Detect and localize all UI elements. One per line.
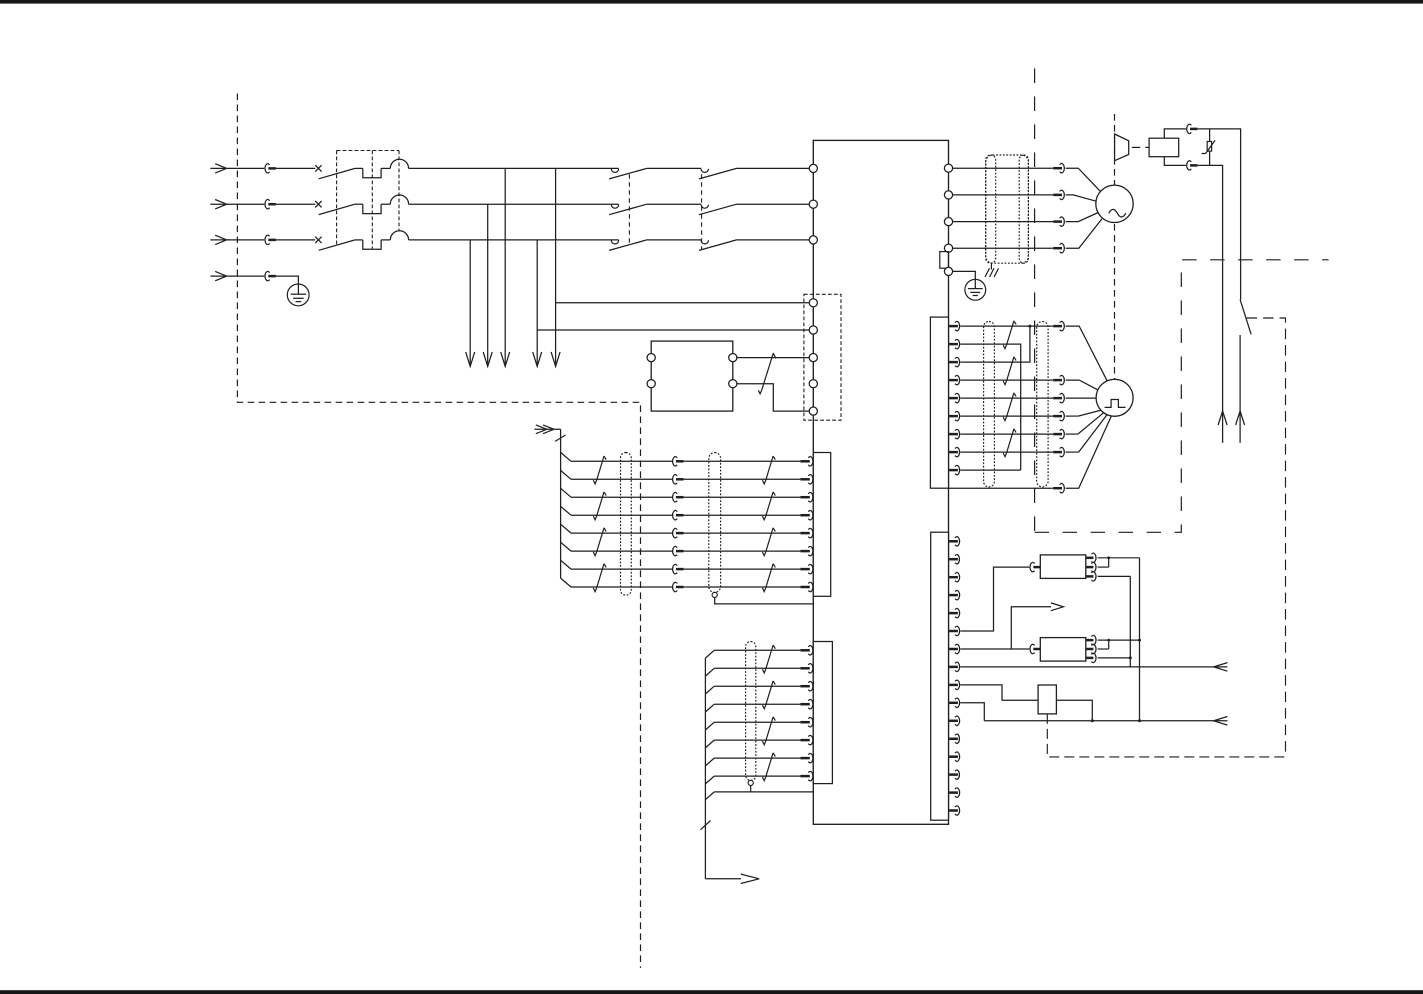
board terminal circle L2	[809, 200, 817, 208]
printer enclosure boundary (left, dashed)	[237, 94, 640, 968]
harness H1 wire 4 (right)	[684, 510, 813, 520]
CN1 pin2 jumper wire	[960, 344, 1020, 470]
harness H1 inline connector 2	[673, 474, 684, 484]
motor M1 ground wire	[952, 271, 975, 279]
power tap wire T2 with down arrow	[483, 204, 492, 366]
connector CN2 pin 5	[949, 608, 960, 618]
twisted pair mark M2-1	[1003, 321, 1016, 349]
relay RY1 output pin 1	[1086, 553, 1096, 563]
mains input arrow PE	[210, 271, 226, 280]
circuit breaker CB1 pole 2 (blade, thermal element)	[319, 195, 409, 215]
connector CN1 pin 1	[949, 321, 960, 331]
harness H1 cable count slash	[555, 435, 565, 441]
motor M2 lead 2	[1066, 380, 1098, 390]
harness H1 inline connector 7	[673, 564, 684, 574]
connector CN2 pin 1	[949, 536, 960, 546]
twisted pair mark H1R-2	[762, 492, 775, 520]
buzzer driver box	[1149, 138, 1179, 157]
relay RY2 input connector	[1030, 644, 1041, 654]
motor M1 cable shield (outer)	[986, 155, 1029, 263]
harness H1 entry arrow	[534, 425, 560, 434]
relay RY2 output pin 1	[1086, 635, 1096, 645]
contactor K2 contact pole 3	[699, 240, 810, 251]
connector CN1 pin 7	[949, 429, 960, 439]
board connector CN1 housing	[930, 317, 948, 488]
top frame bar	[0, 0, 1423, 4]
relay RY2 wire bottom	[1098, 657, 1131, 659]
connector CN1 pin 6	[949, 411, 960, 421]
circuit breaker CB1 pole 3 (blade, thermal element)	[319, 231, 409, 251]
harness H2 bus wire	[704, 658, 706, 879]
relay RY1 output pin 2	[1086, 562, 1096, 572]
circuit breaker CB1 outline (dashed)	[337, 151, 399, 249]
contactor K1 contact pole 3	[609, 240, 701, 251]
relay RY1 wire bottom	[1098, 575, 1131, 577]
harness H2 branch 6	[705, 740, 714, 748]
connector CN1 pin 5	[949, 393, 960, 403]
wire CN2-7 to relay RY2	[960, 648, 1029, 650]
relay RY1 output pin 3	[1086, 572, 1096, 582]
relay RY2 output pin 3	[1086, 653, 1096, 663]
motor M1 cable shield (inner left)	[986, 155, 996, 263]
harness H1 branch 4	[561, 506, 571, 515]
harness H1 inline connector 1	[673, 456, 684, 466]
motor unit boundary (dashed vertical at speaker/motors)	[1114, 114, 1116, 379]
harness H1 inline connector 8	[673, 582, 684, 592]
harness H1 inline connector 6	[673, 546, 684, 556]
harness H1 wire 4 (left)	[571, 514, 672, 516]
motor M2 lead 1	[1066, 326, 1108, 381]
board connector CN3 housing	[813, 453, 830, 597]
harness H1 wire 5 (left)	[571, 532, 672, 534]
harness H1 wire 8 (right)	[684, 582, 813, 592]
harness H2 branch 2	[705, 668, 714, 676]
connector CN2 pin 6	[949, 626, 960, 636]
fuse F2 (X mark)	[276, 201, 322, 207]
board connector CN4 housing	[813, 642, 832, 784]
motor M1 lead 3	[1066, 213, 1099, 222]
harness H1 inline connector 4	[673, 510, 684, 520]
motor M1 phase wire 4	[952, 243, 1064, 253]
CN1 pin5 wire to motor	[960, 393, 1064, 403]
wire tap T4 to board connector (lower)	[537, 329, 810, 331]
motor M2 (stepping motor with encoder)	[1096, 379, 1133, 416]
harness H1 wire 7 (right)	[684, 564, 813, 574]
interlock switch S1 blade	[1240, 300, 1251, 335]
connector CN1 pin 4	[949, 375, 960, 385]
connector CN2 pin 14	[949, 770, 959, 780]
relay RY1 input connector	[1030, 562, 1041, 572]
harness H2 wire 7	[714, 753, 813, 763]
twisted pair mark H2-3	[762, 717, 775, 745]
fuse F1 (X mark)	[276, 165, 322, 171]
harness H2 branch 4	[705, 704, 714, 712]
mains inlet connector PE	[227, 271, 276, 281]
buzzer link (dashed)	[1132, 146, 1149, 148]
signal bus vertical B	[1129, 576, 1132, 667]
CN1 pin7 wire to motor	[960, 429, 1064, 439]
power tap wire T3 with down arrow	[501, 168, 510, 366]
board output circle U1	[944, 164, 952, 172]
motor M2 cable shield capsule B	[1037, 322, 1048, 487]
relay RY1 (solenoid)	[1040, 555, 1086, 579]
door switch SW2 output wire	[1056, 700, 1093, 722]
twisted pair mark M2-2	[1003, 357, 1016, 385]
external option boundary (long-dash rectangle)	[1035, 260, 1329, 533]
wire L2 breaker to contactor	[409, 203, 619, 205]
board output circle U2	[944, 191, 952, 199]
board output circle U3	[944, 218, 952, 226]
connector CN2 pin 10	[949, 698, 960, 708]
twisted pair mark H2-2	[762, 681, 775, 709]
thermistor TH1	[1202, 129, 1216, 166]
door switch linkage (dashed upper)	[1247, 318, 1286, 757]
connector CN2 pin 3	[949, 572, 960, 582]
contactor K1 contact pole 2	[609, 204, 701, 215]
board terminal circle A2	[809, 326, 817, 334]
harness H2 branch 1	[705, 650, 714, 658]
CN1 pin8 wire to motor	[960, 447, 1064, 457]
connector CN2 pin 11	[949, 716, 960, 726]
connector CN2 pin 12	[949, 734, 959, 744]
motor M2 lead 6	[1066, 415, 1107, 452]
harness H1 wire 3 (right)	[684, 492, 813, 502]
interlock switch S1 lower wire	[1239, 335, 1241, 443]
harness H2 wire 4	[714, 699, 813, 709]
protective earth symbol E2	[965, 279, 986, 300]
harness H1 wire 7 (left)	[571, 568, 672, 570]
board terminal circle L3	[809, 236, 817, 244]
mains input arrow L1	[210, 164, 226, 173]
buzzer wire bottom	[1164, 157, 1222, 443]
harness H1 wire 8 (left)	[571, 586, 672, 588]
mains input arrow L3	[210, 235, 226, 244]
harness H2 wire 3	[714, 681, 813, 691]
relay RY1 wire mid	[1098, 556, 1111, 567]
harness H1 branch 1	[561, 452, 571, 461]
protective earth symbol E1	[287, 284, 309, 306]
buzzer wire top	[1164, 124, 1240, 300]
contactor K2 contact pole 1	[699, 168, 810, 179]
wire CN2-9 to door switch	[960, 685, 1038, 700]
relay RY1 wire top	[1098, 557, 1140, 559]
harness H1 wire 5 (right)	[684, 528, 813, 538]
shield drain and chassis ground FG1	[985, 263, 999, 277]
harness H1 inline connector 5	[673, 528, 684, 538]
harness H1 shield capsule (left)	[621, 453, 632, 596]
connector CN2 pin 16	[949, 806, 960, 816]
harness H2 branch 3	[705, 686, 714, 694]
buzzer BZ1 (speaker cone)	[1115, 134, 1129, 161]
motor M1 phase wire 2	[952, 190, 1064, 200]
twisted pair mark M2-3	[1003, 393, 1016, 421]
motor M1 lead 4	[1066, 219, 1103, 249]
wire external input (lower)	[984, 717, 1227, 726]
connector CN1 pin 8	[949, 447, 960, 457]
harness H1 branch 2	[561, 470, 571, 479]
mains inlet connector L1	[227, 164, 276, 174]
motor M2 cable shield capsule A	[984, 322, 995, 487]
harness H1 inline connector 3	[673, 492, 684, 502]
harness H2 wire 6	[714, 735, 813, 745]
circuit breaker CB1 pole 1 (blade, thermal element)	[319, 159, 409, 179]
connector CN2 pin 8	[949, 662, 960, 672]
wire CN2-10 jumper down	[960, 703, 984, 721]
connector CN5 outline (dashed)	[804, 294, 841, 420]
twisted pair mark H2-1	[762, 645, 775, 673]
harness H2 exit arrow	[705, 874, 759, 883]
relay RY2 wire top	[1098, 639, 1140, 641]
board output circle GND	[944, 267, 952, 275]
motor M2 lead 7	[1066, 416, 1112, 488]
door switch SW2 box	[1038, 685, 1056, 714]
contactor K1 contact pole 1	[609, 168, 701, 179]
twisted pair mark H1L-3	[593, 528, 606, 556]
harness H1 branch 5	[561, 524, 571, 533]
harness H2 wire 8	[714, 771, 813, 781]
harness H2 branch 5	[705, 722, 714, 730]
motor M1 phase wire 1	[952, 163, 1064, 173]
harness H1 bus wire	[560, 429, 562, 578]
external line arrow up (right)	[1236, 411, 1245, 425]
CN1 pin1 wire to motor	[960, 321, 1064, 331]
board output circle U4	[944, 244, 952, 252]
board terminal circle A3	[809, 354, 817, 362]
power tap wire T1 with down arrow	[466, 240, 475, 367]
wire L1 breaker to contactor	[409, 167, 619, 169]
contactor K1 linkage (dashed)	[628, 174, 630, 244]
twisted pair mark H1R-1	[762, 456, 775, 484]
harness H2 shield capsule	[746, 642, 756, 792]
connector CN2 pin 13	[949, 752, 960, 762]
relay RY2 output pin 2	[1086, 644, 1096, 654]
harness H1 wire 3 (left)	[571, 496, 672, 498]
twisted pair mark H1R-4	[762, 564, 775, 592]
connector CN1 pin 2	[949, 339, 960, 349]
reference arrow branch	[1011, 603, 1063, 649]
wire tap T5 to board connector (upper)	[556, 302, 810, 304]
twisted pair mark H1L-2	[593, 492, 606, 520]
board terminal circle L1	[809, 164, 817, 172]
terminal jumper bar	[940, 252, 949, 269]
connector CN1 pin 9	[949, 465, 960, 475]
harness H2 branch 7	[705, 758, 714, 766]
harness H1 wire 1 (right)	[684, 456, 813, 466]
harness H1 branch 8	[561, 578, 571, 587]
harness H1 branch 3	[561, 488, 571, 497]
harness H1 wire 6 (right)	[684, 546, 813, 556]
transformer T1 terminal S1	[729, 354, 737, 362]
wire T1 secondary 2	[736, 384, 810, 411]
motor M1 (AC motor)	[1096, 185, 1133, 222]
bottom frame bar	[0, 990, 1423, 994]
motor M1 lead 1	[1066, 168, 1101, 192]
twisted pair mark M2-4	[1003, 429, 1016, 457]
power tap wire T4 with down arrow	[533, 240, 542, 367]
wire CN2-6 to relay RY1	[960, 567, 1029, 631]
harness H1 branch 7	[561, 560, 571, 569]
motor M2 lead 4	[1066, 410, 1101, 416]
mains input arrow L2	[210, 200, 226, 209]
harness H2 branch 8	[705, 776, 714, 784]
twisted pair mark H1R-3	[762, 528, 775, 556]
connector CN2 pin 7	[949, 644, 960, 654]
twisted pair mark (transformer secondary)	[758, 353, 776, 394]
board terminal circle A5	[809, 407, 817, 415]
motor M2 shield wire	[949, 483, 1065, 493]
harness H1 wire 2 (left)	[571, 478, 672, 480]
relay RY2 wire mid	[1098, 639, 1111, 649]
connector CN2 pin 4	[949, 590, 960, 600]
signal bus vertical A	[1138, 558, 1141, 723]
harness H1 wire 2 (right)	[684, 474, 813, 484]
twisted pair mark H2-4	[762, 753, 775, 781]
motor M2 lead 3	[1066, 397, 1097, 399]
door switch mechanical linkage (dashed)	[1047, 714, 1285, 757]
connector CN2 pin 2	[949, 554, 959, 564]
CN1 pin3 riser wire	[960, 325, 1031, 363]
connector CN2 pin 15	[949, 788, 960, 798]
motor M1 lead 2	[1066, 195, 1097, 201]
wire T1 secondary 1	[736, 357, 810, 359]
transformer T1 terminal P2	[647, 380, 655, 388]
external unit boundary (long-dash vertical)	[1034, 69, 1036, 533]
board terminal circle A4	[809, 380, 817, 388]
main control board (power supply / main PCB)	[813, 140, 948, 824]
motor M1 cable shield (inner right)	[1019, 155, 1028, 263]
CN1 pin4 wire to motor	[960, 375, 1064, 385]
protective earth wire	[276, 276, 299, 284]
harness H1 shield capsule (right)	[709, 453, 814, 604]
contactor K2 linkage (dashed)	[701, 174, 703, 249]
fuse F3 (X mark)	[276, 237, 322, 243]
harness H2 wire 2	[714, 663, 813, 673]
motor M1 phase wire 3	[952, 217, 1064, 227]
transformer T1 terminal S2	[729, 380, 737, 388]
wire L3 breaker to contactor	[409, 239, 619, 241]
harness H2 cable count slash	[701, 821, 711, 830]
connector CN1 pin 3	[949, 357, 960, 367]
CN1 pin9 jumper wire	[960, 469, 1020, 471]
board connector CN2 housing	[931, 532, 949, 820]
harness H2 wire 5	[714, 717, 813, 727]
transformer T1 terminal P1	[647, 354, 655, 362]
harness H1 wire 1 (left)	[571, 460, 672, 462]
motor M2 lead 5	[1066, 413, 1104, 434]
mains inlet connector L3	[227, 235, 276, 245]
contactor K2 contact pole 2	[699, 204, 810, 215]
board terminal circle A1	[809, 299, 817, 307]
mains inlet connector L2	[227, 199, 276, 209]
harness H2 drain branch	[705, 792, 813, 800]
connector CN2 pin 9	[949, 680, 960, 690]
relay RY2 (solenoid)	[1040, 638, 1086, 662]
CN1 pin6 wire to motor	[960, 411, 1064, 421]
twisted pair mark H1L-4	[593, 564, 606, 592]
harness H1 wire 6 (left)	[571, 550, 672, 552]
twisted pair mark H1L-1	[593, 456, 606, 484]
power tap wire T5 with down arrow	[551, 168, 560, 366]
wire CN2-8 external input	[960, 663, 1227, 672]
external line arrow up (left)	[1218, 411, 1227, 425]
harness H1 branch 6	[561, 542, 571, 551]
transformer T1 box	[651, 341, 733, 411]
harness H2 wire 1	[714, 645, 813, 655]
